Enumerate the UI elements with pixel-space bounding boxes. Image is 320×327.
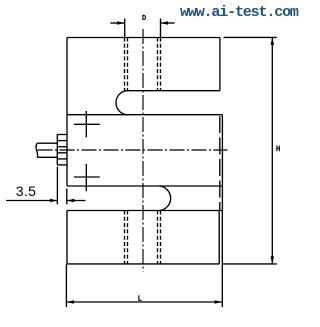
svg-text:3.5: 3.5 xyxy=(16,183,37,199)
svg-text:www.ai-test.com: www.ai-test.com xyxy=(180,4,299,21)
